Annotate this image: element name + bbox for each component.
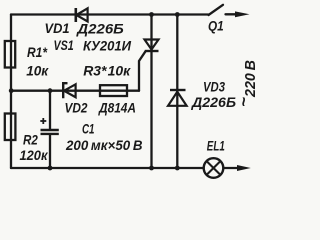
svg-text:Д814А: Д814А bbox=[98, 100, 136, 116]
svg-text:КУ201И: КУ201И bbox=[83, 38, 132, 54]
svg-text:VS1: VS1 bbox=[54, 37, 74, 53]
svg-text:R3* 10к: R3* 10к bbox=[83, 63, 131, 79]
svg-text:R1*: R1* bbox=[27, 44, 47, 60]
svg-text:EL1: EL1 bbox=[207, 138, 225, 154]
svg-text:VD2: VD2 bbox=[65, 100, 88, 116]
svg-text:C1: C1 bbox=[82, 121, 95, 137]
svg-text:220 В: 220 В bbox=[242, 60, 258, 98]
svg-text:Д226Б: Д226Б bbox=[191, 94, 236, 110]
svg-text:VD3: VD3 bbox=[203, 79, 225, 95]
svg-text:VD1: VD1 bbox=[45, 20, 70, 36]
svg-text:Д226Б: Д226Б bbox=[76, 21, 124, 37]
svg-text:120к: 120к bbox=[20, 147, 49, 163]
svg-text:Q1: Q1 bbox=[208, 18, 224, 34]
svg-text:200 мк×50 В: 200 мк×50 В bbox=[65, 137, 142, 153]
svg-text:R2: R2 bbox=[23, 132, 38, 148]
svg-text:10к: 10к bbox=[26, 62, 49, 78]
svg-text:~: ~ bbox=[234, 97, 253, 107]
